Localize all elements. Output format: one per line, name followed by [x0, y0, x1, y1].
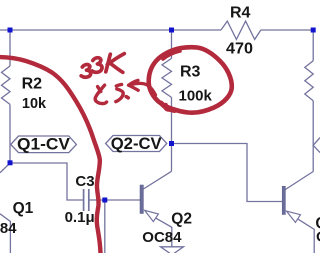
- label outline Q2-CV: [106, 136, 167, 152]
- red circle bottom-left knot: [161, 103, 175, 111]
- node Q2-CV: [169, 141, 174, 146]
- svg-text:C3: C3: [75, 173, 94, 190]
- svg-text:O: O: [316, 229, 320, 246]
- red handwriting 33K first 3: [81, 64, 91, 77]
- transistor Q3 emitter lead: [298, 219, 315, 253]
- svg-text:R4: R4: [230, 5, 251, 22]
- wire rail down to right resistor: [312, 30, 314, 61]
- resistor R5 zigzag: [305, 61, 313, 101]
- wire from top rail down to R2: [9, 30, 11, 66]
- transistor Q1 emitter lead: [0, 214, 10, 253]
- transistor Q2 emitter lead: [156, 218, 172, 247]
- transistor Q2 collector lead: [143, 171, 171, 189]
- red arrow head lower barb: [129, 85, 139, 90]
- transistor Q1 collector lead: [0, 163, 10, 173]
- wire R3 top to rail: [171, 30, 173, 58]
- wire Q2 collector up through node Q2-CV to R3: [171, 97, 173, 171]
- svg-text:470: 470: [226, 41, 253, 58]
- node Q1 collector: [8, 160, 13, 165]
- wire node Q2-CV to right transistor base: [172, 144, 283, 202]
- red handwriting dot: [126, 97, 128, 98]
- transistor Q2 emitter arrow: [145, 210, 159, 221]
- red circle bottom-left loop: [165, 105, 170, 111]
- red annotations: [0, 47, 232, 253]
- svg-text:0.1μ: 0.1μ: [65, 209, 95, 226]
- node rail-R3: [169, 28, 174, 33]
- svg-text:Q1-CV: Q1-CV: [17, 134, 71, 153]
- red handwriting to stroke 1: [98, 87, 101, 92]
- svg-text:100k: 100k: [179, 87, 213, 104]
- wire R2 bottom to node Q1-CV junction: [9, 104, 11, 163]
- svg-text:10k: 10k: [22, 96, 47, 112]
- node C3-Q2 base: [102, 198, 107, 203]
- node rail-R2: [8, 28, 13, 33]
- red arrow shaft: [130, 83, 156, 95]
- wire right resistor to right transistor collector: [312, 101, 314, 172]
- red handwriting K stroke 2: [107, 54, 124, 65]
- transistor Q3 collector lead: [285, 172, 313, 190]
- red circle around R3: [149, 47, 232, 113]
- red handwriting K stroke 1: [106, 54, 111, 72]
- red circle top-left inner tail: [163, 51, 180, 59]
- svg-text:Q2: Q2: [171, 210, 192, 227]
- svg-text:R3: R3: [180, 64, 201, 81]
- red arrow head upper barb: [129, 80, 138, 85]
- red handwriting K stroke 3: [111, 64, 123, 73]
- capacitor C3 plates: [84, 189, 89, 211]
- red handwriting u stroke 1: [116, 84, 121, 86]
- transistor Q3 emitter arrow: [287, 211, 301, 222]
- red squiggle line: [0, 57, 101, 253]
- red handwriting 33K second 3: [92, 58, 102, 73]
- svg-text:OC84: OC84: [0, 220, 17, 237]
- resistor R2 zigzag: [2, 66, 11, 104]
- transistor Q2 base bar: [140, 185, 143, 214]
- wire top rail left segment: [0, 29, 221, 31]
- resistor R4 zigzag: [221, 21, 261, 39]
- label outline right callout (cut off): [313, 138, 320, 153]
- wire node Q1-CV to C3: [10, 163, 84, 200]
- ground symbol under Q2: [161, 247, 184, 253]
- label outline Q1-CV: [11, 136, 77, 153]
- wire top rail right segment: [261, 29, 313, 31]
- red handwriting u stroke 2: [116, 89, 123, 102]
- wire C3 to Q2 base: [89, 199, 140, 201]
- svg-text:Q2-CV: Q2-CV: [111, 134, 163, 153]
- svg-text:R2: R2: [22, 76, 43, 93]
- wire node down from C3 junction: [104, 200, 106, 253]
- svg-text:OC84: OC84: [142, 229, 182, 246]
- resistor R3 zigzag: [162, 58, 172, 97]
- red handwriting to stroke 2: [95, 85, 106, 103]
- node rail-R5: [311, 28, 316, 33]
- transistor Q3 base bar: [282, 186, 285, 214]
- svg-text:Q1: Q1: [13, 200, 34, 217]
